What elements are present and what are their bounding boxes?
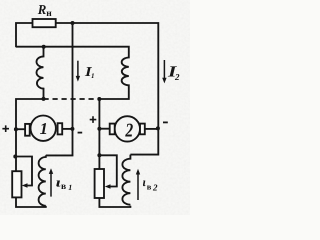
svg-text:в: в bbox=[61, 182, 66, 192]
svg-text:1: 1 bbox=[91, 72, 95, 80]
svg-text:2: 2 bbox=[152, 182, 158, 192]
svg-text:1: 1 bbox=[40, 119, 48, 138]
svg-text:2: 2 bbox=[125, 121, 134, 142]
svg-text:1: 1 bbox=[68, 183, 72, 192]
svg-text:R: R bbox=[37, 2, 47, 17]
svg-text:в: в bbox=[147, 181, 152, 191]
svg-text:2: 2 bbox=[174, 72, 180, 82]
svg-text:н: н bbox=[46, 9, 52, 19]
